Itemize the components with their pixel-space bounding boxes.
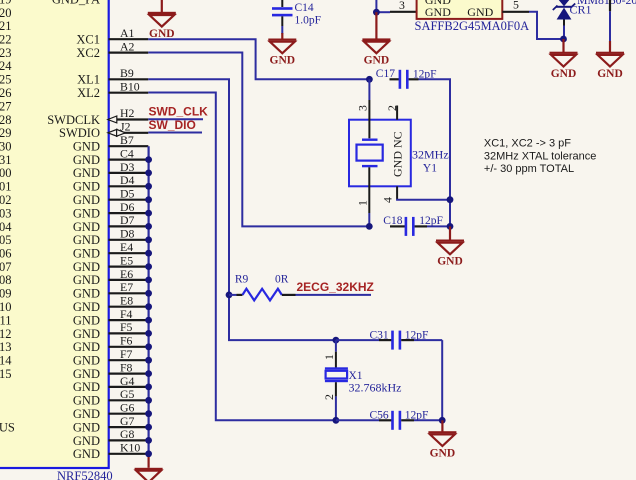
svg-text:P1.07: P1.07 xyxy=(0,260,12,274)
pin C4 (GND) xyxy=(0,146,148,167)
wire SAW pin5 to CR1 node xyxy=(502,12,563,39)
svg-text:D7: D7 xyxy=(120,213,135,227)
svg-text:SAFFB2G45MA0F0A: SAFFB2G45MA0F0A xyxy=(415,19,530,33)
crystal X1 pin 1 xyxy=(322,340,336,368)
svg-text:GND: GND xyxy=(73,407,100,421)
crystal Y1 GND NC pin names xyxy=(391,131,405,177)
pin A1 (XC1) xyxy=(0,26,148,47)
pin P0.20 (P0.20) xyxy=(0,6,12,20)
pin B9 (XL1) xyxy=(0,66,148,87)
svg-text:GND: GND xyxy=(425,5,451,19)
svg-text:GND: GND xyxy=(73,206,100,220)
wire XL2 net (B10 down) xyxy=(148,93,336,421)
svg-text:XL1: XL1 xyxy=(77,73,100,87)
svg-text:12pF: 12pF xyxy=(405,410,429,422)
ground under CR1 xyxy=(550,39,578,80)
svg-text:P1.12: P1.12 xyxy=(0,327,12,341)
svg-text:P1.08: P1.08 xyxy=(0,273,12,287)
svg-text:P1.15: P1.15 xyxy=(0,367,12,381)
svg-text:P1.04: P1.04 xyxy=(0,220,12,234)
svg-text:GND: GND xyxy=(73,447,100,461)
svg-text:P1.06: P1.06 xyxy=(0,247,12,261)
svg-text:P0.22: P0.22 xyxy=(0,33,12,47)
svg-text:12pF: 12pF xyxy=(419,215,443,227)
crystal Y1 value 32MHz xyxy=(412,148,449,175)
SAW filter value SAFFB2G45MA0F0A xyxy=(415,19,530,33)
svg-text:F6: F6 xyxy=(120,334,133,348)
svg-text:F7: F7 xyxy=(120,347,133,361)
net label SW_DIO xyxy=(149,118,196,132)
crystal Y1 pin 3 xyxy=(356,79,370,138)
svg-text:GND: GND xyxy=(73,233,100,247)
pin E8 (GND) xyxy=(0,294,148,315)
svg-text:GND_PA: GND_PA xyxy=(52,0,100,6)
svg-text:GND: GND xyxy=(73,140,100,154)
node junction XC1/C17/Y1.3 xyxy=(366,76,373,83)
pin G7 (GND) xyxy=(0,414,148,435)
svg-text:GND: GND xyxy=(430,447,456,459)
pin B7 (GND) xyxy=(0,133,148,154)
svg-text:C18: C18 xyxy=(383,215,402,227)
TVS diode CR1 xyxy=(553,0,575,39)
crystal Y1 box xyxy=(349,120,411,187)
svg-text:GND: GND xyxy=(73,367,100,381)
svg-text:C14: C14 xyxy=(295,2,314,14)
node junction at SAW pin3 drop xyxy=(373,9,380,16)
svg-text:P1.13: P1.13 xyxy=(0,340,12,354)
svg-text:GND: GND xyxy=(73,434,100,448)
svg-text:P1.05: P1.05 xyxy=(0,233,12,247)
pin D5 (GND) xyxy=(0,187,148,208)
ground near A1 xyxy=(148,0,176,40)
svg-text:5: 5 xyxy=(513,0,519,12)
svg-text:XL2: XL2 xyxy=(77,86,100,100)
svg-text:GND: GND xyxy=(73,247,100,261)
svg-text:2: 2 xyxy=(385,105,399,111)
svg-text:K10: K10 xyxy=(120,441,140,455)
pin P0.24 (P0.24) xyxy=(0,59,12,73)
svg-text:E5: E5 xyxy=(120,253,133,267)
svg-text:E6: E6 xyxy=(120,267,133,281)
pin F7 (GND) xyxy=(0,347,148,368)
wire GND bus vertical xyxy=(148,146,150,457)
IC U1 NRF52840 body xyxy=(0,0,109,468)
pin P0.21 (P0.21) xyxy=(0,19,12,33)
pin G6 (GND) xyxy=(73,401,148,422)
pin E6 (GND) xyxy=(0,267,148,287)
svg-text:GND: GND xyxy=(551,68,577,80)
net label SWD_CLK xyxy=(149,105,209,119)
pin A2 (XC2) xyxy=(0,39,148,60)
svg-text:GND: GND xyxy=(73,193,100,207)
capacitor C31 xyxy=(336,330,442,350)
svg-text:P0.23: P0.23 xyxy=(0,46,12,60)
net label 2ECG_32KHZ xyxy=(297,280,374,294)
svg-text:P0.25: P0.25 xyxy=(0,73,12,87)
svg-text:P0.21: P0.21 xyxy=(0,19,12,33)
svg-text:G7: G7 xyxy=(120,414,135,428)
pin D3 (GND) xyxy=(0,160,148,180)
svg-text:P0.29: P0.29 xyxy=(0,126,12,140)
svg-text:GND: GND xyxy=(73,260,100,274)
capacitor C18 xyxy=(383,215,450,236)
pin B10 (XL2) xyxy=(0,80,148,101)
wire XC1 net (A1 to crystal) xyxy=(148,39,369,79)
svg-text:2ECG_32KHZ: 2ECG_32KHZ xyxy=(297,280,374,294)
svg-text:E4: E4 xyxy=(120,240,133,254)
pin E5 (GND) xyxy=(0,253,148,274)
svg-text:P0.20: P0.20 xyxy=(0,6,12,20)
svg-text:R9: R9 xyxy=(235,274,249,286)
crystal Y1 pin 2 (NC) xyxy=(385,105,399,120)
svg-text:GND: GND xyxy=(73,394,100,408)
ground under C56 xyxy=(428,420,456,459)
node junction C56 right/GND xyxy=(439,417,446,424)
wire R9 to net label xyxy=(296,294,372,296)
ground right xyxy=(596,41,624,80)
pin F5 (GND) xyxy=(0,320,148,341)
pin D6 (GND) xyxy=(0,200,148,221)
svg-text:GND: GND xyxy=(73,354,100,368)
svg-text:3: 3 xyxy=(399,0,405,12)
pin H2 (SWDCLK) xyxy=(0,106,148,127)
svg-text:G6: G6 xyxy=(120,401,135,415)
crystal X1 element xyxy=(325,367,348,382)
capacitor C56 xyxy=(336,410,442,430)
wire right component to GND xyxy=(609,0,611,42)
svg-text:GND: GND xyxy=(73,300,100,314)
pin E4 (GND) xyxy=(0,240,148,261)
svg-text:Y1: Y1 xyxy=(423,163,437,175)
pin P0.19 (GND_PA) xyxy=(0,0,100,6)
svg-text:SWDIO: SWDIO xyxy=(59,126,100,140)
svg-text:F8: F8 xyxy=(120,360,133,374)
svg-text:32MHz: 32MHz xyxy=(412,148,449,162)
crystal X1 pin 2 xyxy=(322,382,336,420)
svg-text:A1: A1 xyxy=(120,26,135,40)
capacitor C17 xyxy=(376,68,437,89)
svg-text:B7: B7 xyxy=(120,133,134,147)
svg-text:P0.31: P0.31 xyxy=(0,153,12,167)
svg-text:1: 1 xyxy=(322,354,336,360)
pin D4 (GND) xyxy=(0,173,148,194)
note text XTAL tolerance xyxy=(484,138,597,175)
svg-text:SW_DIO: SW_DIO xyxy=(149,118,196,132)
svg-text:P1.01: P1.01 xyxy=(0,180,12,194)
svg-text:D3: D3 xyxy=(120,160,135,174)
node junction Y1.4/C17 vertical xyxy=(447,196,454,203)
pin F6 (GND) xyxy=(0,334,148,355)
ground under junction xyxy=(362,12,390,66)
svg-text:2: 2 xyxy=(322,394,336,400)
wire SWDIO xyxy=(148,132,202,134)
node junction XL1/X1.1/C31 xyxy=(333,337,340,344)
svg-text:G4: G4 xyxy=(120,374,135,388)
resistor R9 xyxy=(229,274,296,301)
svg-text:P0.28: P0.28 xyxy=(0,113,12,127)
svg-text:P0.30: P0.30 xyxy=(0,140,12,154)
capacitor C14 xyxy=(272,0,321,34)
svg-text:GND: GND xyxy=(73,166,100,180)
junction dots GND bus xyxy=(145,156,152,457)
svg-text:GND NC: GND NC xyxy=(391,131,405,177)
svg-text:P1.14: P1.14 xyxy=(0,354,12,368)
node junction C18 right xyxy=(447,223,454,230)
svg-text:G8: G8 xyxy=(120,427,135,441)
svg-text:E8: E8 xyxy=(120,294,133,308)
svg-text:P0.26: P0.26 xyxy=(0,86,12,100)
svg-text:P1.00: P1.00 xyxy=(0,166,12,180)
svg-text:12pF: 12pF xyxy=(405,330,429,342)
svg-text:GND: GND xyxy=(73,340,100,354)
svg-text:32MHz XTAL tolerance: 32MHz XTAL tolerance xyxy=(484,150,597,162)
pin number 3 (SAW) xyxy=(399,0,405,12)
pin G4 (GND) xyxy=(73,374,148,394)
wire C31 right vertical xyxy=(441,340,443,420)
svg-text:4: 4 xyxy=(381,197,395,203)
svg-text:XC1, XC2 -> 3 pF: XC1, XC2 -> 3 pF xyxy=(484,138,571,150)
svg-text:D6: D6 xyxy=(120,200,135,214)
wire XC2 net (A2 to C18 row) xyxy=(148,53,369,227)
svg-text:NRF52840: NRF52840 xyxy=(57,469,113,480)
svg-text:GND: GND xyxy=(73,220,100,234)
svg-text:XC1: XC1 xyxy=(76,33,100,47)
svg-text:P1.11: P1.11 xyxy=(0,313,12,327)
pin E7 (GND) xyxy=(0,280,148,301)
svg-text:GND: GND xyxy=(73,287,100,301)
svg-text:F5: F5 xyxy=(120,320,133,334)
svg-text:P1.02: P1.02 xyxy=(0,193,12,207)
pin F4 (GND) xyxy=(0,307,148,328)
svg-text:GND: GND xyxy=(597,68,623,80)
svg-text:GND: GND xyxy=(437,256,463,268)
pin K10 (GND) xyxy=(73,441,148,462)
ground under C18 xyxy=(436,226,464,267)
svg-text:P1.09: P1.09 xyxy=(0,287,12,301)
pin D8 (GND) xyxy=(0,227,148,248)
crystal Y1 element xyxy=(357,139,383,168)
svg-text:GND: GND xyxy=(364,55,390,67)
crystal X1 designator and value xyxy=(349,370,402,395)
pin G8 (GND) xyxy=(73,427,148,448)
ground chip GND bus xyxy=(135,457,163,480)
svg-text:B10: B10 xyxy=(120,80,140,94)
svg-text:E7: E7 xyxy=(120,280,133,294)
svg-text:GND: GND xyxy=(73,420,100,434)
pin number 5 (SAW) xyxy=(513,0,519,12)
crystal Y1 pin 4 xyxy=(381,186,451,203)
node junction X1.2/C56 xyxy=(333,417,340,424)
node junction XC2/C18/Y1.1 xyxy=(366,223,373,230)
svg-text:1: 1 xyxy=(356,200,370,206)
svg-text:GND: GND xyxy=(73,273,100,287)
svg-text:G5: G5 xyxy=(120,387,135,401)
svg-text:GND: GND xyxy=(73,313,100,327)
wire to SAW filter pin 3 xyxy=(376,0,416,12)
svg-text:GND: GND xyxy=(467,5,493,19)
TVS diode CR1 value MM8150 xyxy=(577,0,636,7)
svg-text:B9: B9 xyxy=(120,66,134,80)
IC U1 value label NRF52840 xyxy=(57,469,113,480)
svg-text:D8: D8 xyxy=(120,227,135,241)
svg-text:32.768kHz: 32.768kHz xyxy=(349,381,402,395)
svg-text:XC2: XC2 xyxy=(76,46,100,60)
svg-text:+/- 30 ppm TOTAL: +/- 30 ppm TOTAL xyxy=(484,163,574,175)
svg-text:D4: D4 xyxy=(120,173,135,187)
svg-text:C31: C31 xyxy=(370,330,389,342)
TVS diode CR1 designator xyxy=(570,3,592,17)
svg-text:D5: D5 xyxy=(120,187,135,201)
svg-text:P0.24: P0.24 xyxy=(0,59,12,73)
pin D7 (GND) xyxy=(0,213,148,234)
pin F8 (GND) xyxy=(0,360,148,381)
wire SWDCLK xyxy=(148,118,203,120)
svg-text:P1.03: P1.03 xyxy=(0,206,12,220)
svg-text:P1.10: P1.10 xyxy=(0,300,12,314)
pin J2 (SWDIO) xyxy=(0,120,148,141)
svg-text:C17: C17 xyxy=(376,68,395,80)
svg-text:1.0pF: 1.0pF xyxy=(295,15,322,27)
wire C17 right to vertical xyxy=(419,79,451,226)
svg-text:0R: 0R xyxy=(275,274,289,286)
svg-text:GND: GND xyxy=(73,327,100,341)
svg-text:SWD_CLK: SWD_CLK xyxy=(149,105,209,119)
svg-text:H2: H2 xyxy=(120,106,135,120)
svg-text:MM8150-20: MM8150-20 xyxy=(577,0,636,7)
wire XL1 net (B9 down) xyxy=(148,79,336,340)
svg-text:GND: GND xyxy=(73,380,100,394)
svg-text:F4: F4 xyxy=(120,307,133,321)
crystal Y1 pin 1 xyxy=(356,167,370,226)
node junction R9 tap xyxy=(226,292,233,299)
node junction CR1/GND xyxy=(560,36,567,43)
svg-text:GND: GND xyxy=(73,153,100,167)
svg-text:C56: C56 xyxy=(370,410,389,422)
SAW filter FL1 SAFFB2G45MA0F0A body xyxy=(417,0,503,19)
svg-text:3: 3 xyxy=(356,105,370,111)
svg-text:P0.27: P0.27 xyxy=(0,99,12,113)
pin G5 (GND) xyxy=(73,387,148,408)
svg-text:GND: GND xyxy=(73,180,100,194)
svg-text:A2: A2 xyxy=(120,39,135,53)
svg-text:C4: C4 xyxy=(120,146,134,160)
pin P0.27 (P0.27) xyxy=(0,99,12,113)
svg-text:GND: GND xyxy=(270,55,296,67)
ground under C14 xyxy=(268,33,296,67)
svg-text:SWDCLK: SWDCLK xyxy=(47,113,100,127)
svg-text:VBUS: VBUS xyxy=(0,420,15,434)
